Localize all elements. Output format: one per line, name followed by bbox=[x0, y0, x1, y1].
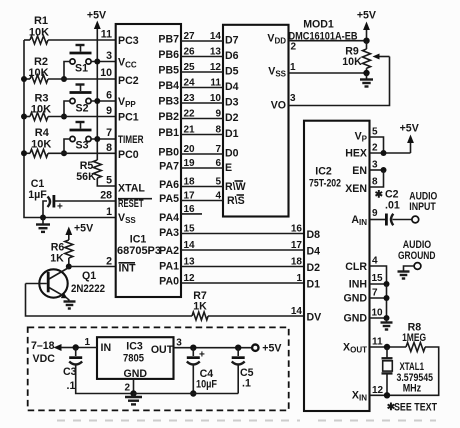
pin 5 XTAL bbox=[106, 175, 145, 195]
svg-text:7805: 7805 bbox=[123, 353, 144, 365]
pin 7 TIMER bbox=[106, 127, 144, 146]
svg-text:1: 1 bbox=[290, 62, 296, 73]
svg-text:CLR: CLR bbox=[345, 261, 367, 273]
svg-text:RESET: RESET bbox=[118, 198, 144, 210]
svg-text:INT: INT bbox=[119, 263, 137, 275]
svg-text:5: 5 bbox=[106, 175, 112, 187]
wire PA5-R/S bbox=[159, 191, 245, 208]
potentiometer R9 bbox=[342, 41, 389, 73]
svg-text:14: 14 bbox=[184, 240, 196, 251]
wire S3 left contact to PC0 row bbox=[64, 139, 70, 153]
pin 28 RESET bbox=[100, 190, 152, 211]
svg-text:XTAL: XTAL bbox=[118, 183, 145, 195]
svg-text:PB2: PB2 bbox=[158, 111, 179, 123]
node: rail/R2 junction bbox=[21, 76, 27, 82]
+5V output terminal bbox=[252, 343, 281, 355]
svg-text:8: 8 bbox=[215, 125, 221, 136]
node: S1/R2 junction bbox=[61, 76, 67, 82]
svg-text:D5: D5 bbox=[225, 66, 239, 78]
svg-text:PC0: PC0 bbox=[118, 149, 139, 161]
wire PA6-R/W bbox=[159, 177, 245, 194]
switch S1 bbox=[70, 45, 92, 75]
node: VDD junction bbox=[363, 38, 369, 44]
svg-text:PB5: PB5 bbox=[158, 65, 179, 77]
pin 2 INT bbox=[106, 256, 136, 275]
svg-text:10: 10 bbox=[100, 67, 112, 79]
svg-text:7: 7 bbox=[106, 127, 112, 139]
svg-text:GND: GND bbox=[343, 313, 367, 325]
node: rail/R3 junction bbox=[21, 114, 27, 120]
svg-text:SEE TEXT: SEE TEXT bbox=[394, 402, 437, 414]
wire PB2-D2 bbox=[158, 109, 238, 125]
svg-text:PA6: PA6 bbox=[159, 179, 179, 191]
svg-text:1: 1 bbox=[296, 273, 302, 284]
node: VSS/R9 junction bbox=[363, 70, 369, 76]
svg-text:2N2222: 2N2222 bbox=[71, 283, 105, 295]
wire PA2-D4 bbox=[159, 240, 320, 258]
svg-text:PC1: PC1 bbox=[118, 112, 139, 124]
svg-text:3: 3 bbox=[176, 338, 182, 349]
IC1 68705P3 body bbox=[116, 24, 181, 297]
svg-text:56K: 56K bbox=[76, 171, 96, 183]
wire VPP row bbox=[91, 100, 116, 102]
pin 1 VSS bbox=[106, 206, 136, 225]
svg-text:IC3: IC3 bbox=[126, 341, 143, 353]
svg-text:8: 8 bbox=[106, 142, 112, 154]
svg-text:1K: 1K bbox=[50, 253, 64, 265]
svg-text:4: 4 bbox=[372, 256, 378, 267]
svg-text:D7: D7 bbox=[225, 35, 239, 47]
MOD1 display module body bbox=[223, 25, 289, 217]
pin 2 VDD wire bbox=[267, 33, 366, 53]
svg-text:+: + bbox=[57, 202, 63, 213]
svg-text:R4: R4 bbox=[35, 127, 50, 139]
node: rail/R4 junction bbox=[21, 150, 27, 156]
svg-text:10K: 10K bbox=[29, 27, 49, 39]
ground (Q1 emitter) bbox=[64, 300, 76, 309]
svg-text:E: E bbox=[225, 162, 232, 174]
svg-text:10K: 10K bbox=[31, 104, 51, 116]
svg-text:10K: 10K bbox=[31, 138, 51, 150]
svg-text:DV: DV bbox=[307, 312, 322, 324]
pin 1 VSS wire bbox=[268, 62, 366, 79]
svg-text:PA1: PA1 bbox=[159, 261, 179, 273]
svg-text:23: 23 bbox=[184, 93, 196, 104]
svg-text:D4: D4 bbox=[225, 81, 239, 93]
ground (IC3) bbox=[125, 394, 142, 405]
wire PB7-D7 bbox=[158, 31, 238, 47]
capacitor C3 bbox=[63, 348, 134, 394]
wire OUT pin 3 bbox=[174, 338, 252, 349]
ground (under R9) bbox=[360, 73, 373, 87]
svg-text:PC2: PC2 bbox=[118, 75, 139, 87]
wire PB5-D5 bbox=[158, 62, 238, 78]
svg-text:Q1: Q1 bbox=[82, 270, 96, 282]
svg-text:EN: EN bbox=[352, 165, 367, 177]
pin 3 EN bbox=[352, 160, 383, 178]
wire PB1-D1 bbox=[158, 125, 238, 141]
svg-text:TIMER: TIMER bbox=[118, 134, 144, 146]
wire PA0-D1 bbox=[159, 273, 320, 291]
resistor R1 bbox=[24, 15, 116, 44]
svg-text:GROUND: GROUND bbox=[398, 250, 436, 262]
svg-text:21: 21 bbox=[184, 125, 196, 136]
svg-text:D1: D1 bbox=[307, 279, 321, 291]
svg-text:12: 12 bbox=[184, 273, 196, 284]
transistor Q1 2N2222 bbox=[26, 268, 106, 301]
svg-text:15: 15 bbox=[184, 224, 196, 235]
resistor R5 bbox=[76, 160, 116, 186]
pin 7 GND bbox=[343, 284, 386, 318]
ground (under C1) bbox=[36, 218, 50, 232]
svg-text:17: 17 bbox=[291, 240, 303, 251]
svg-text:9: 9 bbox=[215, 109, 221, 120]
capacitor C1 bbox=[28, 178, 116, 218]
svg-text:PA0: PA0 bbox=[159, 276, 179, 288]
svg-text:S1: S1 bbox=[75, 63, 88, 75]
svg-text:PC3: PC3 bbox=[118, 35, 139, 47]
svg-text:27: 27 bbox=[184, 31, 196, 42]
svg-text:+: + bbox=[199, 350, 205, 361]
svg-text:GND: GND bbox=[343, 293, 367, 305]
wire GND pin 2 / ground bbox=[124, 379, 133, 394]
wire PA3-D8 bbox=[159, 224, 320, 242]
svg-text:VDC: VDC bbox=[33, 353, 56, 365]
capacitor C2 label bbox=[375, 189, 400, 212]
resistor R2 bbox=[24, 56, 116, 83]
DC input terminal arrow bbox=[31, 340, 76, 365]
svg-text:VO: VO bbox=[271, 100, 286, 112]
svg-text:INH: INH bbox=[349, 279, 367, 291]
+5V rail (vertical, x=97) bbox=[96, 40, 98, 160]
svg-text:12: 12 bbox=[210, 62, 222, 73]
svg-text:18: 18 bbox=[184, 177, 196, 188]
svg-text:1µF: 1µF bbox=[28, 189, 47, 201]
node: VP/HEX junction bbox=[381, 150, 387, 156]
svg-text:16: 16 bbox=[291, 224, 303, 235]
svg-text:13: 13 bbox=[210, 47, 222, 58]
wire IN pin 1 bbox=[76, 337, 97, 348]
node: VCC rail junction bbox=[94, 59, 100, 65]
svg-text:13: 13 bbox=[184, 257, 196, 268]
pin 15 INH bbox=[349, 273, 387, 291]
faint page artifact line bbox=[57, 420, 436, 422]
pin 4 CLR bbox=[345, 256, 386, 285]
svg-text:9: 9 bbox=[372, 208, 378, 219]
svg-text:D1: D1 bbox=[225, 128, 239, 140]
svg-text:+5V: +5V bbox=[74, 223, 93, 235]
svg-text:10: 10 bbox=[210, 93, 222, 104]
pin 9 PC1 bbox=[106, 105, 139, 124]
svg-text:PA7: PA7 bbox=[159, 161, 179, 173]
resistor R7 bbox=[192, 290, 304, 320]
resistor R3 bbox=[24, 93, 116, 121]
IC2 75T-202 body bbox=[304, 121, 370, 411]
svg-text:D3: D3 bbox=[225, 97, 239, 109]
audio input label bbox=[409, 191, 437, 214]
svg-text:D4: D4 bbox=[307, 246, 321, 258]
svg-text:12: 12 bbox=[372, 385, 384, 396]
svg-text:S2: S2 bbox=[76, 103, 89, 115]
wire S2 left contact to PC1 row bbox=[64, 101, 70, 117]
svg-text:D6: D6 bbox=[225, 50, 239, 62]
svg-text:.01: .01 bbox=[385, 200, 400, 212]
svg-text:11: 11 bbox=[372, 337, 383, 348]
ground (IC2) bbox=[381, 318, 393, 330]
node: TIMER rail junction bbox=[94, 136, 100, 142]
node: S3/R4 junction bbox=[61, 150, 67, 156]
svg-text:+5V: +5V bbox=[87, 10, 106, 22]
svg-text:75T-202: 75T-202 bbox=[309, 178, 341, 190]
node: C5 top junction bbox=[235, 345, 241, 351]
resistor R6 bbox=[50, 240, 73, 267]
+5V supply arrow (top left) bbox=[87, 10, 106, 41]
wire PA1-D2 bbox=[159, 257, 320, 275]
wire INT row bbox=[69, 266, 116, 268]
+5V supply arrow (IC2) bbox=[400, 123, 419, 154]
svg-text:5: 5 bbox=[215, 177, 221, 188]
switch S3 bbox=[70, 122, 92, 152]
svg-text:14: 14 bbox=[210, 31, 222, 42]
pin 10 PC2 bbox=[100, 67, 139, 87]
wire ground bus bbox=[134, 393, 239, 395]
svg-text:9: 9 bbox=[106, 105, 112, 117]
svg-text:20: 20 bbox=[184, 144, 196, 155]
IC3 7805 body bbox=[97, 337, 174, 379]
svg-text:MHz: MHz bbox=[403, 383, 422, 395]
wire Q1 base to DV row bbox=[26, 284, 193, 317]
svg-text:D8: D8 bbox=[307, 229, 321, 241]
audio ground terminal bbox=[404, 263, 421, 271]
svg-text:D0: D0 bbox=[225, 148, 239, 160]
svg-text:1: 1 bbox=[84, 337, 90, 348]
svg-text:1K: 1K bbox=[193, 301, 207, 313]
svg-text:5: 5 bbox=[372, 127, 378, 138]
svg-text:10µF: 10µF bbox=[196, 379, 217, 391]
svg-text:R\S: R\S bbox=[227, 195, 245, 207]
node: GND10 junction bbox=[384, 315, 390, 321]
resistor R8 bbox=[387, 322, 439, 396]
svg-text:OUT: OUT bbox=[151, 344, 174, 356]
switch S2 bbox=[70, 85, 92, 115]
svg-text:10: 10 bbox=[372, 308, 384, 319]
svg-text:10K: 10K bbox=[342, 56, 362, 68]
svg-text:HEX: HEX bbox=[345, 148, 367, 160]
svg-text:11: 11 bbox=[101, 29, 112, 41]
pin 12 XIN bbox=[352, 385, 387, 403]
svg-text:4: 4 bbox=[215, 191, 221, 202]
node: EN/XEN junction bbox=[381, 167, 387, 173]
pin 11 XOUT bbox=[343, 337, 387, 355]
svg-text:S3: S3 bbox=[76, 140, 89, 152]
pin 6 VPP bbox=[106, 90, 136, 110]
svg-text:.1: .1 bbox=[242, 378, 251, 390]
svg-text:2: 2 bbox=[124, 383, 130, 394]
svg-text:PB4: PB4 bbox=[158, 80, 179, 92]
svg-text:24: 24 bbox=[184, 78, 196, 89]
svg-text:2: 2 bbox=[372, 143, 378, 154]
svg-text:7: 7 bbox=[372, 288, 378, 299]
svg-text:✱: ✱ bbox=[375, 190, 384, 201]
svg-text:10K: 10K bbox=[28, 67, 48, 79]
svg-text:2: 2 bbox=[291, 42, 297, 53]
see text note bbox=[387, 402, 438, 414]
svg-text:MOD1: MOD1 bbox=[303, 19, 334, 31]
svg-text:+5V: +5V bbox=[400, 123, 419, 135]
wire TIMER row bbox=[91, 138, 116, 140]
wire PB3-D3 bbox=[158, 93, 238, 109]
node: GND7 junction bbox=[384, 295, 390, 301]
node: XIN junction bbox=[384, 392, 390, 398]
svg-text:IN: IN bbox=[101, 342, 112, 354]
node: R6/Q1 collector/INT junction bbox=[66, 264, 72, 270]
svg-text:IC2: IC2 bbox=[315, 166, 332, 178]
+5V supply arrow (MOD1) bbox=[357, 10, 376, 41]
svg-text:PB1: PB1 bbox=[158, 127, 179, 139]
node: C4 bottom junction bbox=[190, 390, 196, 396]
svg-text:16: 16 bbox=[184, 204, 196, 215]
svg-text:28: 28 bbox=[100, 190, 112, 202]
audio input terminal bbox=[412, 216, 419, 223]
pin 9 AIN / capacitor C2 bbox=[351, 208, 411, 227]
svg-text:D2: D2 bbox=[225, 112, 239, 124]
svg-text:+5V: +5V bbox=[357, 10, 376, 22]
wire PA7-E bbox=[159, 158, 232, 174]
svg-text:17: 17 bbox=[184, 191, 196, 202]
svg-text:7–18: 7–18 bbox=[31, 340, 55, 352]
svg-text:PB7: PB7 bbox=[158, 34, 179, 46]
pin 3 VCC bbox=[106, 50, 137, 70]
IC1 labels bbox=[117, 234, 161, 258]
svg-text:XEN: XEN bbox=[345, 183, 367, 195]
wire S1 left contact to PC2 row bbox=[64, 62, 70, 80]
svg-text:PB6: PB6 bbox=[158, 49, 179, 61]
svg-text:PB0: PB0 bbox=[158, 147, 179, 159]
pin 14 DV (R7 row) bbox=[291, 306, 321, 324]
svg-text:2: 2 bbox=[106, 256, 112, 268]
pin 5 VP bbox=[355, 127, 384, 154]
svg-text:3: 3 bbox=[290, 93, 296, 104]
pin 11 PC3 bbox=[101, 29, 139, 48]
svg-text:8: 8 bbox=[372, 177, 378, 188]
svg-text:INPUT: INPUT bbox=[409, 201, 436, 213]
power supply dashed enclosure bbox=[28, 327, 289, 410]
svg-text:15: 15 bbox=[372, 273, 384, 284]
node: C4 top junction bbox=[190, 345, 196, 351]
IC2 labels bbox=[309, 166, 341, 190]
svg-text:6: 6 bbox=[106, 90, 112, 102]
audio ground label bbox=[398, 239, 436, 262]
pin 16 PA4 stub bbox=[159, 204, 202, 224]
IC3 labels bbox=[101, 341, 174, 381]
svg-text:25: 25 bbox=[184, 62, 196, 73]
node: C3 junction bbox=[73, 344, 79, 350]
node: XOUT junction bbox=[384, 344, 390, 350]
svg-text:PA3: PA3 bbox=[159, 227, 179, 239]
pin 8 PC0 bbox=[106, 142, 139, 161]
svg-text:14: 14 bbox=[291, 306, 303, 317]
svg-text:GND: GND bbox=[124, 368, 148, 380]
svg-text:.1: .1 bbox=[67, 380, 76, 392]
svg-text:R\W: R\W bbox=[225, 181, 246, 193]
svg-text:6: 6 bbox=[215, 158, 221, 169]
pin 10 GND bbox=[343, 308, 386, 325]
node: IC3 ground junction bbox=[130, 390, 136, 396]
svg-text:3: 3 bbox=[372, 160, 378, 171]
svg-text:7: 7 bbox=[215, 144, 221, 155]
wire PB6-D6 bbox=[158, 47, 238, 63]
pin 8 XEN bbox=[345, 170, 383, 195]
svg-text:68705P3: 68705P3 bbox=[117, 245, 161, 257]
node: C1/ground junction bbox=[40, 215, 46, 221]
svg-text:PA2: PA2 bbox=[159, 245, 179, 257]
node: VPP rail junction bbox=[94, 98, 100, 104]
svg-text:19: 19 bbox=[184, 158, 196, 169]
ground rail (left) bbox=[24, 40, 116, 218]
svg-text:1: 1 bbox=[106, 206, 112, 218]
crystal XTAL1 bbox=[382, 347, 434, 395]
wire PB0-D0 bbox=[158, 144, 238, 160]
capacitor C5 bbox=[232, 348, 254, 394]
svg-text:D2: D2 bbox=[307, 262, 321, 274]
node: INH junction bbox=[384, 281, 390, 287]
resistor R4 bbox=[24, 127, 116, 157]
svg-text:R1: R1 bbox=[34, 15, 48, 27]
svg-text:26: 26 bbox=[184, 47, 196, 58]
svg-text:PA5: PA5 bbox=[159, 193, 179, 205]
pin 2 HEX bbox=[345, 143, 410, 160]
ground (audio) bbox=[398, 272, 410, 279]
capacitor C4 bbox=[187, 348, 218, 394]
svg-text:IC1: IC1 bbox=[130, 234, 147, 246]
MOD1 title bbox=[289, 19, 358, 43]
node: S2/R3 junction bbox=[61, 114, 67, 120]
+5V supply arrow (R6) bbox=[65, 223, 93, 241]
wire PB4-D4 bbox=[158, 78, 238, 94]
svg-text:3: 3 bbox=[106, 50, 112, 62]
svg-text:+5V: +5V bbox=[262, 343, 281, 355]
wire VCC row bbox=[91, 61, 116, 63]
svg-text:C3: C3 bbox=[63, 366, 77, 378]
svg-text:18: 18 bbox=[291, 257, 303, 268]
svg-text:22: 22 bbox=[184, 109, 196, 120]
svg-text:PA4: PA4 bbox=[159, 212, 179, 224]
pin 3 VO wire to R9 wiper bbox=[271, 57, 390, 112]
svg-text:11: 11 bbox=[210, 78, 221, 89]
svg-text:PB3: PB3 bbox=[158, 96, 179, 108]
